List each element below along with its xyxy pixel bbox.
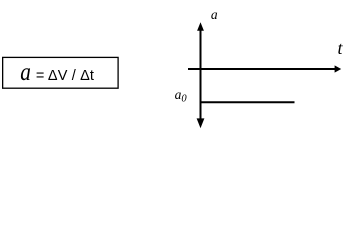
a-axis (vertical) shaft [200, 28, 202, 120]
t-axis right arrowhead [335, 65, 342, 72]
a0 level line [200, 101, 295, 103]
t-axis (horizontal) shaft [188, 68, 336, 70]
svg-text:= ΔV / Δt: = ΔV / Δt [36, 68, 94, 84]
a-axis top arrowhead [197, 22, 204, 31]
svg-text:a: a [211, 7, 218, 22]
a-axis bottom arrowhead [197, 118, 205, 128]
formula box [3, 57, 118, 88]
svg-text:a: a [20, 58, 31, 86]
